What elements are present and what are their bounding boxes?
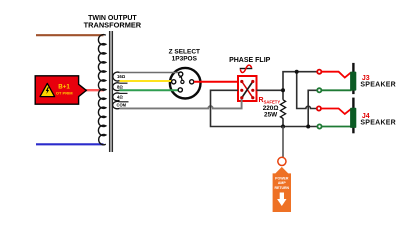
transformer T1 label bbox=[84, 15, 142, 29]
label J4 bbox=[360, 113, 396, 126]
switch S1 pivot bbox=[181, 80, 184, 83]
svg-text:1P3POS: 1P3POS bbox=[172, 56, 198, 63]
wire primary top (brown) bbox=[36, 34, 104, 36]
wire J3 hot (red with strain kink) bbox=[321, 72, 351, 78]
ground tag POWER AMP RETURN bbox=[273, 167, 291, 212]
wire J3 return (green) bbox=[321, 89, 351, 91]
jack J4 terminal block bbox=[350, 108, 356, 128]
wire J4 hot (red with strain kink) bbox=[321, 109, 351, 115]
wire tag top edge 4 ohm bbox=[120, 92, 128, 94]
phase flip sine icon bbox=[240, 65, 253, 72]
svg-text:16Ω: 16Ω bbox=[117, 74, 126, 79]
transformer T1 secondary winding (4 tap loops) bbox=[113, 72, 120, 81]
svg-text:PHASE FLIP: PHASE FLIP bbox=[229, 57, 271, 64]
jack J4 pin bbox=[352, 98, 354, 134]
terminal ring J4 green bbox=[317, 124, 321, 128]
wire ground drop bbox=[282, 127, 284, 159]
wire B+1 to primary center tap (light red) bbox=[85, 89, 104, 91]
label J3 bbox=[360, 75, 396, 89]
warning triangle bbox=[40, 83, 55, 96]
junction resistor bottom / return bbox=[281, 125, 285, 129]
wire COM tap (grey, hops over net-B vertical, up into phase flip) bbox=[120, 98, 242, 109]
resistor R_SAFETY bbox=[280, 100, 285, 119]
svg-text:TRANSFORMER: TRANSFORMER bbox=[84, 20, 142, 29]
svg-text:8Ω: 8Ω bbox=[117, 84, 123, 89]
switch S1 label bbox=[169, 49, 200, 63]
wire 8-ohm tap (green) bbox=[120, 89, 181, 91]
svg-text:SPEAKER: SPEAKER bbox=[360, 81, 396, 88]
svg-text:RETURN: RETURN bbox=[275, 186, 290, 190]
wire switch wiper to phase flip (red) bbox=[194, 81, 238, 83]
svg-text:AMP: AMP bbox=[278, 181, 286, 185]
wire primary bottom (blue) bbox=[36, 143, 104, 145]
svg-text:B+1: B+1 bbox=[58, 84, 70, 91]
contact X wires bbox=[242, 82, 253, 98]
transformer T1 core bbox=[109, 31, 111, 152]
wire tag top edge 8 ohm bbox=[120, 82, 128, 84]
phase flip switch U1 (DPDT crossover) bbox=[238, 76, 257, 101]
svg-text:4Ω: 4Ω bbox=[117, 95, 123, 100]
svg-text:25W: 25W bbox=[264, 112, 278, 119]
switch S1 terminal top bbox=[179, 72, 183, 76]
terminal ring J4 red bbox=[317, 106, 321, 110]
switch S1 terminal right bbox=[190, 80, 194, 84]
switch S1 rotary 1P3POS body bbox=[170, 68, 201, 99]
wire resistor bottom lead bbox=[282, 118, 284, 126]
switch S1 wiper bbox=[179, 76, 182, 81]
ground ring bbox=[278, 157, 286, 165]
wire vertical B (net B up to J3 green) bbox=[308, 90, 317, 126]
terminal ring J3 red bbox=[317, 70, 321, 74]
wire resistor vertical: top corner to J3 red ring bbox=[283, 72, 318, 100]
wire vertical A (net A down to J4 red), hops over vertical B bbox=[297, 72, 317, 109]
svg-text:SAFETY: SAFETY bbox=[264, 100, 281, 105]
wire J4 return (green) bbox=[321, 126, 351, 128]
wire tag top edge COM bbox=[120, 101, 129, 103]
switch S1 terminal bottom bbox=[178, 88, 182, 92]
svg-text:POWER: POWER bbox=[275, 177, 289, 181]
svg-text:SPEAKER: SPEAKER bbox=[360, 119, 396, 126]
junction net A top bbox=[295, 70, 299, 74]
wire net B: phase flip left output, down and along bottom to J4 green ring bbox=[211, 90, 318, 126]
transformer T1 primary winding bbox=[98, 35, 105, 145]
contact dots bbox=[240, 80, 243, 83]
label R_SAFETY bbox=[259, 97, 281, 119]
svg-text:OT PRIM: OT PRIM bbox=[56, 91, 73, 96]
terminal ring J3 green bbox=[317, 88, 321, 92]
jack J3 terminal block bbox=[350, 72, 356, 91]
svg-text:COM: COM bbox=[117, 103, 127, 108]
jack J3 pin bbox=[352, 63, 354, 94]
wire net A: phase flip right output to resistor vertical bbox=[257, 89, 284, 91]
junction net B bottom bbox=[306, 125, 310, 129]
B+1 supply flag bbox=[35, 76, 86, 104]
switch S1 terminal left bbox=[172, 80, 176, 84]
wire 16-ohm tap (yellow) bbox=[120, 80, 174, 82]
svg-text:Z SELECT: Z SELECT bbox=[169, 49, 200, 56]
wire 4-ohm tap to switch top terminal (grey) bbox=[120, 73, 181, 75]
junction net A / resistor bbox=[281, 88, 285, 92]
